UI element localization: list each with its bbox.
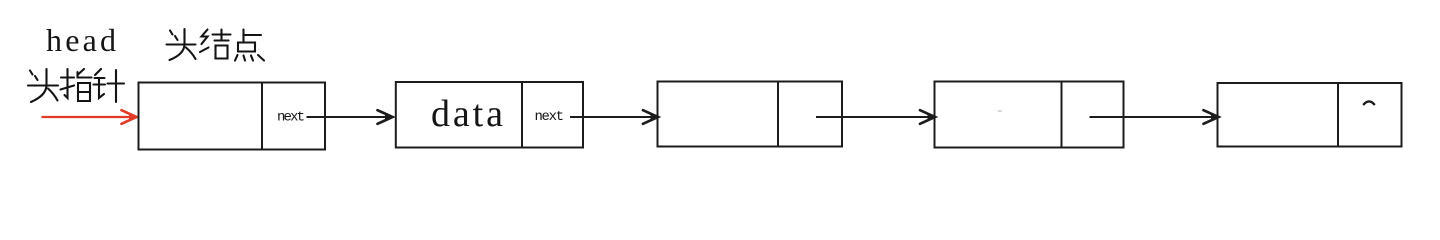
svg-text:next: next: [535, 109, 565, 125]
arrow head into box3: [643, 110, 659, 124]
svg-text:data: data: [431, 93, 503, 135]
faint stray dot in box4: [998, 110, 1003, 112]
node box 3: [658, 82, 843, 147]
label 头结点 (head node, drawn strokes): [167, 29, 265, 61]
null caret ^ in box5: [1364, 101, 1374, 104]
node box 1 (head node): [139, 83, 326, 150]
node box 2 (data node): [396, 82, 583, 148]
char 结: [200, 30, 231, 59]
wire box1 -> box2: [307, 116, 391, 118]
wire box2 -> box3: [570, 116, 656, 118]
char 指: [61, 69, 92, 101]
arrow head into box5: [1204, 110, 1220, 124]
char 针: [94, 69, 125, 102]
arrow head into box2: [378, 110, 394, 124]
svg-text:next: next: [277, 110, 305, 126]
node box 4: [935, 82, 1124, 148]
char 头: [28, 69, 58, 102]
char 点: [235, 30, 264, 61]
node box 5 (tail): [1218, 83, 1402, 147]
wire box3 -> box4: [816, 116, 933, 118]
wire box4 -> box5: [1090, 116, 1217, 118]
arrow head into box4: [920, 110, 936, 124]
red head-pointer arrow: [42, 116, 135, 118]
char 头: [167, 29, 196, 60]
svg-text:head: head: [46, 22, 116, 58]
label 头指针 (head pointer, drawn strokes): [28, 69, 124, 102]
